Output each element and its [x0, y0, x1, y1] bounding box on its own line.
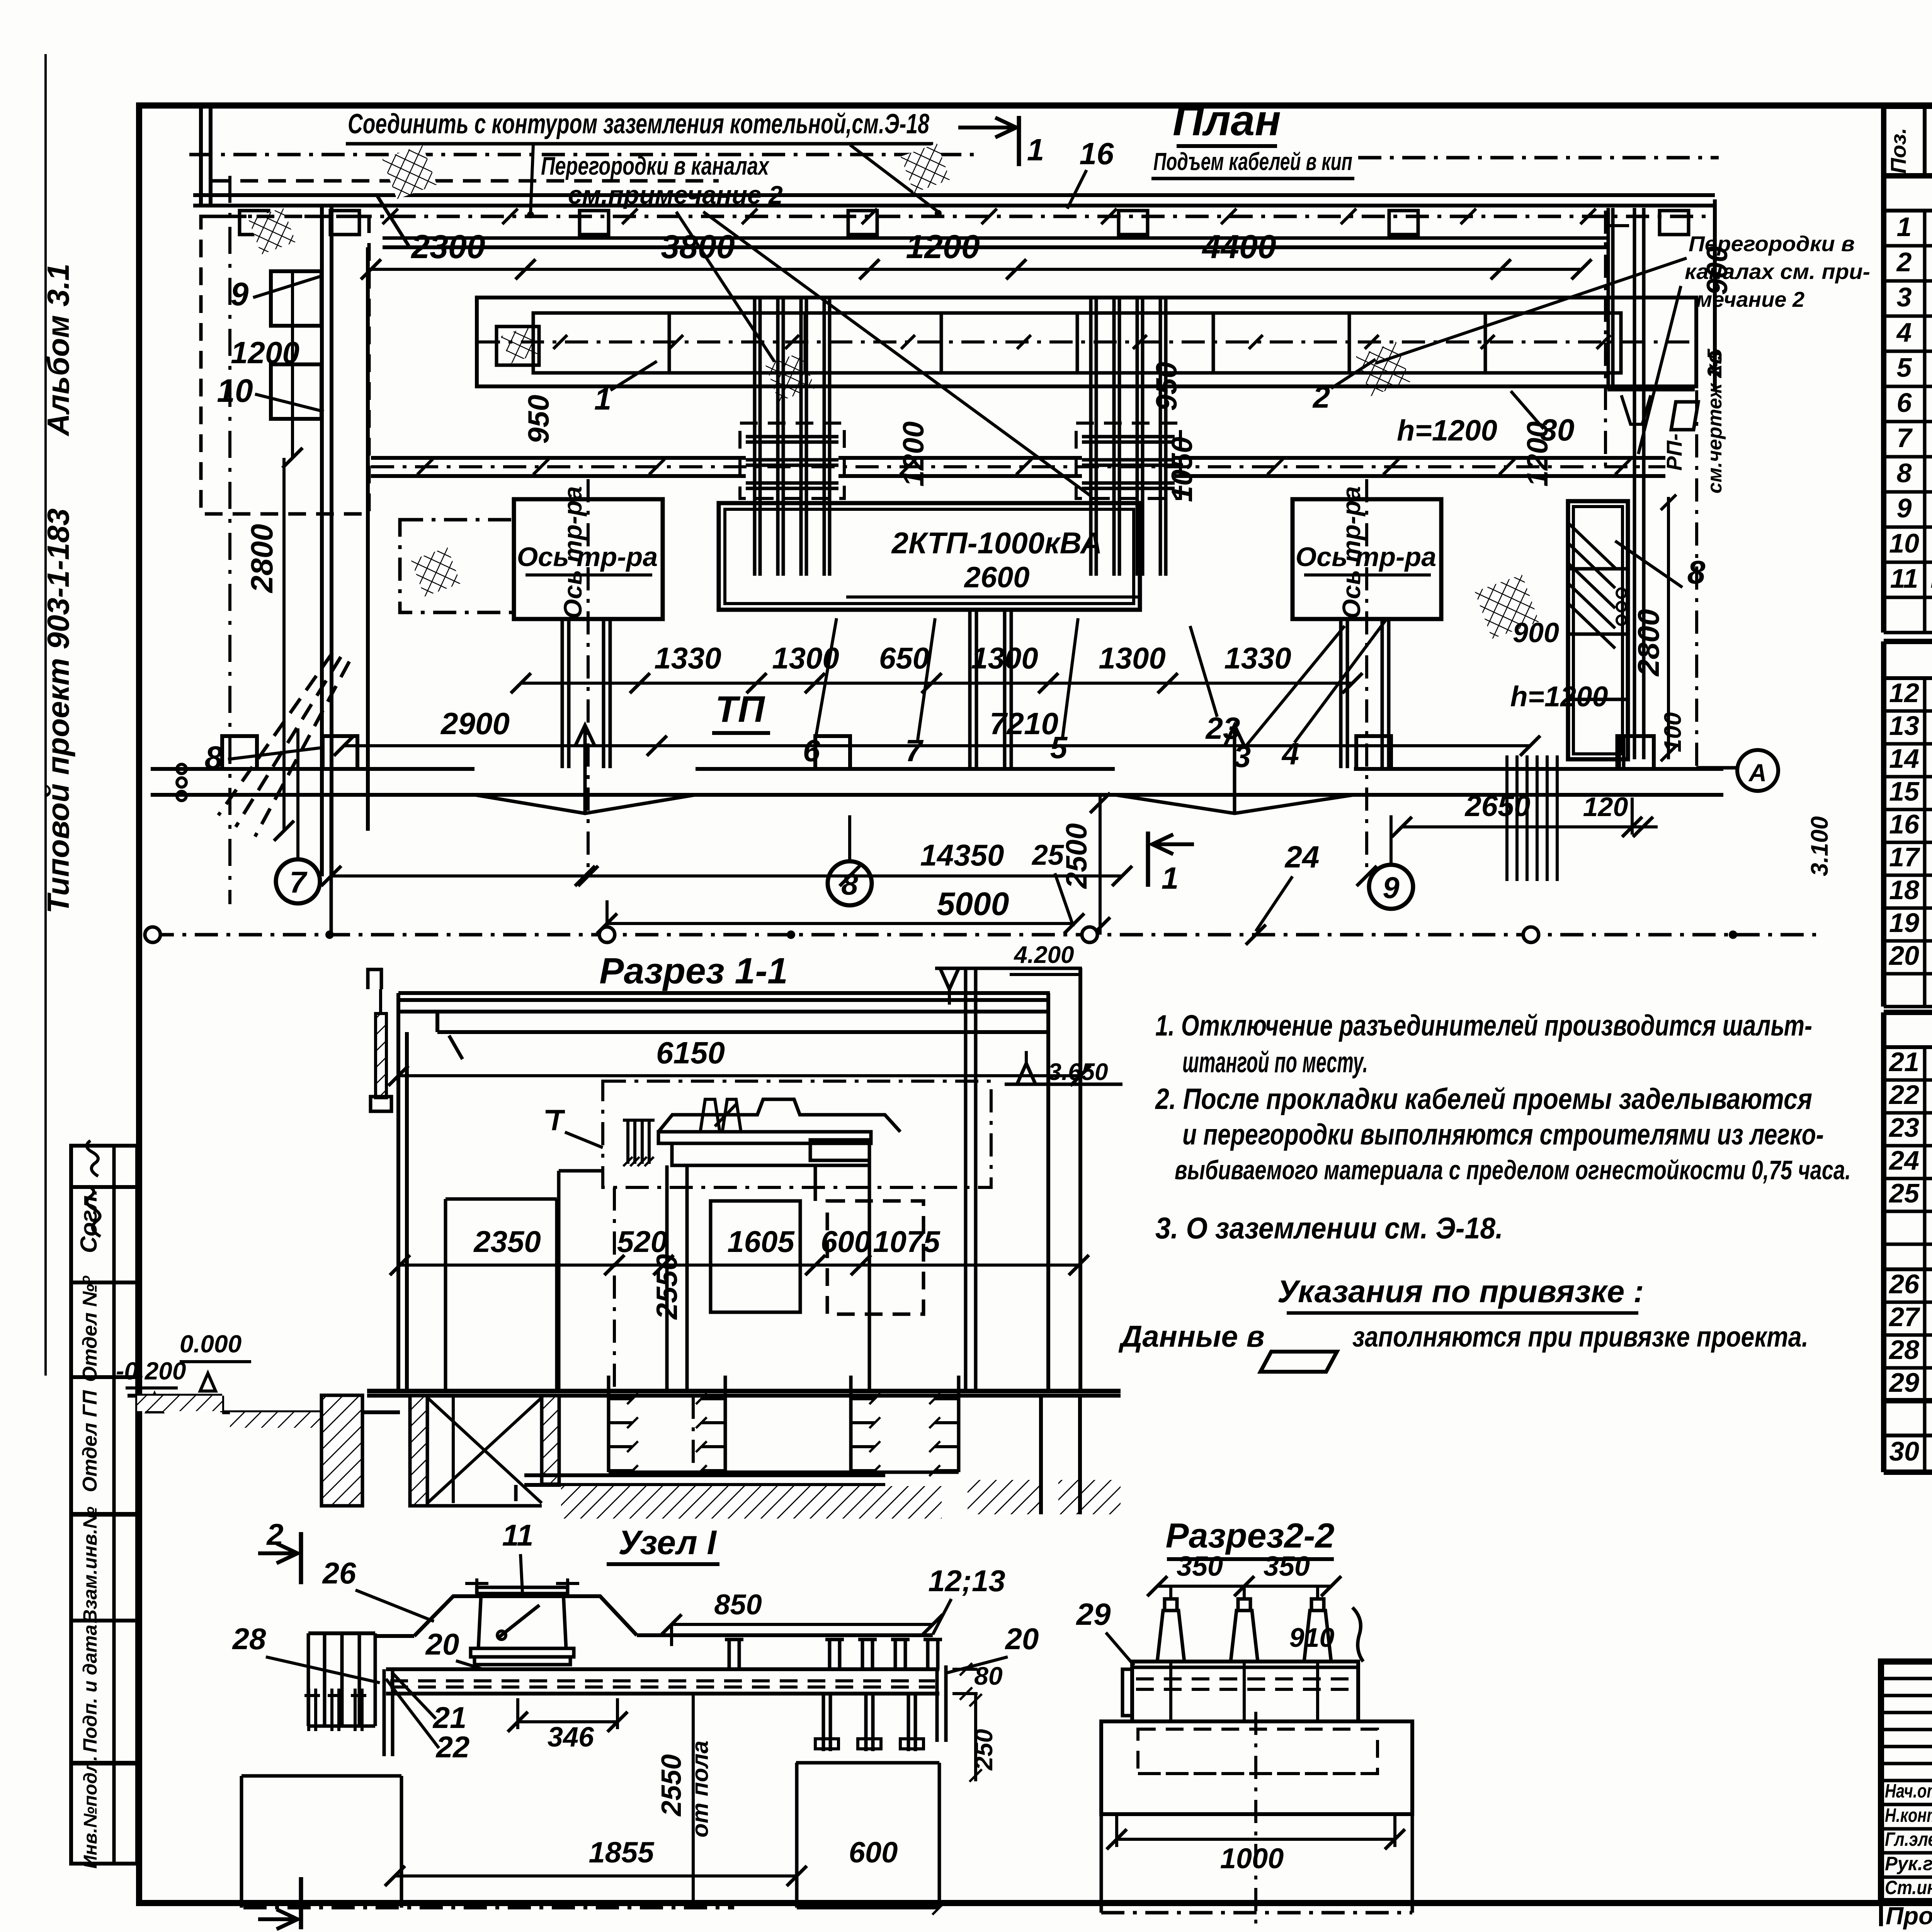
svg-text:29: 29: [1888, 1367, 1919, 1398]
svg-text:6150: 6150: [656, 1036, 725, 1070]
svg-text:0.000: 0.000: [180, 1330, 241, 1358]
section roof slab: [398, 991, 1050, 995]
svg-text:21: 21: [432, 1701, 467, 1735]
KIP riser verticals bottom right: [1505, 755, 1509, 881]
grounding trapezoid detail top-left: [377, 195, 456, 247]
svg-text:910: 910: [1289, 1622, 1335, 1653]
top wall column stubs: [240, 211, 269, 235]
left dashed room outline: [201, 216, 369, 514]
svg-text:10: 10: [1889, 528, 1919, 558]
right partition verticals: [1607, 208, 1610, 389]
bottom wall: [151, 767, 474, 771]
uzel I right bolts row: [728, 1639, 731, 1669]
svg-text:20: 20: [425, 1627, 459, 1661]
svg-text:Типовой проект 903-1-183: Типовой проект 903-1-183: [41, 509, 75, 913]
riser cluster B: [1089, 298, 1093, 576]
top wall axis with x-marks: [216, 215, 1715, 218]
dim 1000: [1117, 1838, 1395, 1841]
svg-text:7: 7: [289, 865, 308, 899]
uzel I hump profile: [375, 1634, 414, 1638]
section 2-2 body: [1132, 1662, 1358, 1721]
svg-text:План: План: [1173, 96, 1281, 145]
bottom wall piers: [222, 736, 257, 769]
svg-text:4.200: 4.200: [1013, 942, 1074, 968]
basement floor slabs: [524, 1473, 885, 1477]
svg-text:11: 11: [1890, 563, 1918, 594]
svg-text:2300: 2300: [410, 228, 485, 265]
dim row 1330-1300-650: [521, 682, 1352, 685]
svg-text:Инв.№подл.: Инв.№подл.: [80, 1756, 101, 1869]
uzel I baseline dashdot: [243, 1906, 734, 1910]
svg-text:выбиваемого материала с предел: выбиваемого материала с пределом огнесто…: [1175, 1155, 1851, 1185]
svg-text:22: 22: [435, 1730, 470, 1764]
svg-text:14350: 14350: [920, 838, 1004, 872]
svg-text:Подп. и дата: Подп. и дата: [79, 1624, 101, 1752]
svg-text:1330: 1330: [654, 641, 721, 675]
svg-text:3.100: 3.100: [1806, 816, 1833, 876]
svg-text:600: 600: [849, 1836, 898, 1869]
svg-text:Альбом 3.1: Альбом 3.1: [41, 264, 75, 437]
svg-text:28: 28: [1888, 1335, 1919, 1365]
uzel I channel right end: [935, 1669, 939, 1742]
section mark 2 bottom: [299, 1877, 303, 1929]
section roof beam band: [398, 1010, 1048, 1014]
svg-text:и перегородки выполняются стр: и перегородки выполняются строителями из…: [1182, 1118, 1824, 1151]
svg-text:Согл.: Согл.: [76, 1189, 102, 1253]
svg-text:Узел I: Узел I: [618, 1523, 717, 1561]
svg-text:1330: 1330: [1224, 641, 1291, 675]
svg-text:20: 20: [1888, 940, 1919, 971]
svg-text:Перегородки в: Перегородки в: [1689, 231, 1855, 256]
right leg: [1616, 734, 1619, 768]
title block outline: [1881, 1662, 1932, 1901]
section 2-2 foundation: [1101, 1721, 1412, 1814]
KIP funnel: [1621, 395, 1651, 424]
svg-text:11: 11: [502, 1518, 534, 1552]
frame-to-wall verticals top left: [199, 108, 203, 206]
parts table: block Electrooborudovanie: [1884, 173, 1932, 178]
dim 14350: [331, 874, 1122, 878]
svg-text:1: 1: [1027, 133, 1044, 167]
right axis dash-dot vertical: [1604, 211, 1607, 475]
riser cluster A: [753, 298, 757, 576]
svg-text:20: 20: [1005, 1622, 1039, 1656]
transformer box 2 legs: [1339, 619, 1343, 768]
svg-text:от пола: от пола: [687, 1741, 713, 1838]
top wall lines: [193, 193, 1715, 197]
svg-text:h=1200: h=1200: [1510, 680, 1608, 713]
svg-text:14: 14: [1889, 743, 1919, 774]
svg-text:4400: 4400: [1201, 228, 1276, 265]
section mark 1 top: [1017, 116, 1021, 166]
svg-text:19: 19: [1889, 908, 1919, 938]
svg-text:1: 1: [1162, 861, 1179, 895]
uzel I bottom dims: [395, 1874, 797, 1878]
svg-text:25: 25: [1031, 839, 1065, 871]
transformer top profile: [658, 1099, 900, 1132]
svg-text:26: 26: [322, 1556, 356, 1590]
stamp column signatures: [87, 1141, 98, 1176]
svg-text:21: 21: [1888, 1047, 1919, 1077]
transformer base and body: [658, 1132, 871, 1143]
svg-text:2800: 2800: [1631, 609, 1665, 677]
svg-text:2500: 2500: [1060, 823, 1093, 889]
svg-text:Ось тр-ра: Ось тр-ра: [558, 486, 587, 619]
svg-text:24: 24: [1284, 840, 1320, 874]
basement left exterior wall hatched: [321, 1395, 362, 1506]
svg-text:18: 18: [1889, 875, 1919, 905]
svg-text:3. О заземлении см. Э-18.: 3. О заземлении см. Э-18.: [1155, 1211, 1503, 1245]
svg-text:9: 9: [1897, 493, 1912, 523]
dim 5000: [607, 922, 1074, 925]
svg-text:2КТП-1000кВА: 2КТП-1000кВА: [891, 526, 1102, 560]
dim 2650 120: [1402, 825, 1632, 828]
svg-text:1605: 1605: [727, 1225, 795, 1259]
svg-text:600: 600: [821, 1225, 871, 1259]
svg-text:2. После прокладки кабелей: 2. После прокладки кабелей проемы заделы…: [1155, 1083, 1812, 1116]
uzel I insulator bucket: [477, 1587, 568, 1594]
svg-text:1: 1: [1897, 212, 1912, 242]
svg-text:Взам.инв.№: Взам.инв.№: [79, 1507, 101, 1623]
svg-text:5: 5: [1897, 352, 1912, 383]
svg-text:12;13: 12;13: [928, 1564, 1005, 1598]
svg-text:24: 24: [1888, 1145, 1919, 1175]
top dimension row: [371, 268, 1582, 271]
svg-text:2: 2: [266, 1517, 283, 1551]
dashed sub box left of box1: [400, 520, 514, 612]
svg-text:650: 650: [879, 641, 929, 675]
svg-text:2800: 2800: [245, 524, 279, 594]
basement right wall: [1039, 1396, 1043, 1514]
svg-text:7210: 7210: [990, 706, 1058, 741]
svg-text:1075: 1075: [873, 1225, 940, 1259]
svg-text:h=1200: h=1200: [1397, 414, 1497, 447]
hatch patches: [383, 145, 437, 199]
section interior rooms: [446, 1197, 557, 1201]
left column axis line: [228, 176, 231, 904]
svg-text:2550: 2550: [651, 1254, 684, 1320]
svg-text:Отдел ГП: Отдел ГП: [79, 1389, 101, 1492]
dashed outline top-left: [213, 179, 719, 183]
basement bottom ground hatch: [561, 1486, 942, 1519]
right foundation block: [795, 1763, 799, 1908]
transformer mounting legs: [701, 1099, 719, 1130]
svg-text:Гл.элек.: Гл.элек.: [1885, 1828, 1932, 1850]
left vertical dim 1200: [291, 269, 294, 458]
svg-text:9: 9: [1383, 871, 1400, 905]
svg-text:2: 2: [1312, 380, 1330, 414]
dim 346: [518, 1720, 617, 1723]
svg-text:2550: 2550: [656, 1754, 687, 1817]
left wall verticals: [320, 206, 324, 876]
uzel I bucket handle: [498, 1605, 539, 1638]
svg-text:2900: 2900: [440, 706, 510, 741]
dim row 2900 7210: [344, 744, 1530, 747]
uzel I left stack verticals: [307, 1633, 310, 1726]
svg-text:1. Отключение разъединителей: 1. Отключение разъединителей производитс…: [1155, 1009, 1812, 1042]
grounding hook right: [1352, 1607, 1363, 1662]
svg-text:80: 80: [974, 1662, 1003, 1690]
three insulators: [1157, 1611, 1184, 1662]
page edge line left: [44, 54, 47, 1376]
section mark 1 bottom: [1146, 832, 1150, 887]
elevation 3.650: [1017, 1063, 1036, 1084]
svg-text:520: 520: [617, 1225, 667, 1259]
tray axis dashdot: [477, 340, 1696, 344]
label A circle: [1696, 766, 1737, 770]
axis circles 7 8 9: [276, 859, 320, 903]
svg-text:6: 6: [803, 733, 820, 768]
svg-text:7: 7: [905, 733, 924, 768]
svg-text:6: 6: [1897, 388, 1912, 418]
svg-text:950: 950: [1150, 362, 1183, 411]
svg-text:5: 5: [1050, 730, 1068, 765]
svg-text:Соединить с контуром заземлени: Соединить с контуром заземления котельно…: [348, 109, 929, 139]
section left wall: [396, 1012, 400, 1391]
exterior ground line with hatch: [128, 1394, 222, 1398]
svg-text:1300: 1300: [971, 641, 1038, 675]
left stamp column boxes: [71, 1146, 137, 1864]
KTP outline: [719, 503, 1140, 610]
svg-text:Ось тр-ра: Ось тр-ра: [1337, 486, 1366, 619]
right RU cabinet: [1568, 501, 1628, 759]
svg-text:850: 850: [714, 1588, 762, 1621]
svg-text:8: 8: [1897, 458, 1912, 488]
svg-text:13: 13: [1889, 711, 1919, 741]
svg-text:Разрез2-2: Разрез2-2: [1165, 1517, 1334, 1555]
gap cell then rows 26-29: [1884, 1267, 1932, 1271]
svg-text:5000: 5000: [937, 886, 1009, 922]
transformer box 1 legs: [561, 619, 564, 768]
right note leaders: [1376, 258, 1687, 363]
svg-text:Подъем кабелей в кип: Подъем кабелей в кип: [1153, 148, 1352, 175]
basement cable racks: [607, 1376, 611, 1472]
svg-text:заполняются при привязке проек: заполняются при привязке проекта.: [1352, 1321, 1808, 1353]
uzel I left stack bolts below: [307, 1689, 310, 1731]
dim 850: [672, 1623, 933, 1626]
section mark 2 top: [299, 1532, 303, 1584]
svg-text:мечание 2: мечание 2: [1696, 287, 1804, 311]
svg-text:3.650: 3.650: [1048, 1059, 1108, 1085]
svg-text:350: 350: [1264, 1551, 1310, 1582]
svg-text:4: 4: [1896, 317, 1912, 347]
transformer radiator fins: [626, 1120, 629, 1164]
cable tray inner segmented: [533, 313, 1621, 373]
svg-text:Отдел №º: Отдел №º: [79, 1275, 101, 1382]
svg-text:900: 900: [1513, 617, 1559, 648]
svg-text:7: 7: [1897, 423, 1913, 453]
svg-text:29: 29: [1076, 1597, 1111, 1631]
section 2-2 below: [1100, 1814, 1103, 1913]
svg-text:2: 2: [1896, 247, 1912, 277]
svg-text:16: 16: [1889, 809, 1920, 839]
bottom axis dash-dot with circles: [151, 933, 1816, 937]
parts table: header: [1884, 106, 1932, 176]
svg-text:28: 28: [232, 1622, 266, 1656]
svg-text:3800: 3800: [661, 228, 735, 265]
section right wall: [1046, 993, 1050, 1391]
svg-text:штангой по месту.: штангой по месту.: [1182, 1046, 1368, 1079]
svg-text:ТП: ТП: [715, 689, 765, 730]
section shaft verticals right: [964, 968, 968, 1391]
svg-text:346: 346: [548, 1722, 594, 1753]
svg-text:22: 22: [1888, 1080, 1919, 1110]
left foundation block: [241, 1774, 401, 1778]
leader wires from grounding note: [531, 145, 533, 213]
svg-text:120: 120: [1583, 792, 1628, 822]
svg-text:27: 27: [1888, 1302, 1920, 1332]
svg-text:Разрез 1-1: Разрез 1-1: [599, 951, 788, 992]
svg-text:1200: 1200: [906, 228, 980, 265]
svg-text:950: 950: [522, 395, 555, 444]
svg-text:12: 12: [1889, 678, 1919, 708]
svg-text:9: 9: [231, 276, 249, 312]
plan right wall corner: [1713, 199, 1717, 390]
svg-text:РП-: РП-: [1662, 434, 1686, 471]
svg-text:2650: 2650: [1464, 790, 1530, 823]
svg-text:2600: 2600: [963, 561, 1029, 594]
svg-text:100: 100: [1660, 712, 1686, 752]
svg-text:-0.200: -0.200: [116, 1357, 186, 1385]
floor line 0.000: [367, 1389, 1121, 1393]
tray left end box: [497, 327, 539, 365]
svg-text:Н.контр: Н.контр: [1885, 1804, 1932, 1826]
svg-text:26: 26: [1888, 1269, 1920, 1299]
svg-text:1000: 1000: [1220, 1842, 1284, 1874]
svg-text:РВР-Ш-10;2000А: РВР-Ш-10;2000А: [1930, 566, 1932, 593]
svg-text:8: 8: [1687, 554, 1706, 590]
parts table: block Prokat chernykh metallov: [1884, 1010, 1932, 1015]
axis dash-dot top: [189, 153, 978, 156]
transformer box 1: [514, 499, 663, 619]
svg-text:Рук.гр.: Рук.гр.: [1885, 1853, 1932, 1874]
uzel I channel left leg: [383, 1669, 386, 1756]
svg-text:Указания по привязке :: Указания по привязке :: [1277, 1274, 1644, 1309]
svg-text:2: 2: [266, 1929, 283, 1932]
basement axis dashdot: [692, 1396, 695, 1475]
svg-text:1050: 1050: [1166, 437, 1199, 502]
svg-text:25: 25: [1888, 1178, 1920, 1208]
svg-text:Данные в: Данные в: [1118, 1319, 1265, 1353]
svg-text:А: А: [1748, 759, 1767, 787]
svg-text:10: 10: [217, 372, 253, 409]
uzel I right legs below channel: [822, 1694, 825, 1751]
peregorodki leaders: [676, 212, 789, 384]
dims 350 350: [1157, 1585, 1331, 1588]
svg-text:30: 30: [1540, 413, 1575, 447]
svg-text:23: 23: [1888, 1112, 1919, 1143]
svg-text:см.чертеж 2-5: см.чертеж 2-5: [1704, 349, 1726, 494]
transformer box 2: [1293, 499, 1441, 619]
svg-text:2350: 2350: [473, 1225, 541, 1259]
svg-text:17: 17: [1889, 842, 1920, 872]
svg-text:30: 30: [1889, 1436, 1919, 1466]
uzel I main channel band: [386, 1667, 939, 1671]
svg-text:каналах см. при-: каналах см. при-: [1685, 259, 1870, 284]
section 2-2 channel band: [1130, 1660, 1360, 1663]
left wall boxes: [271, 271, 321, 326]
svg-text:Пров. Суриков: Пров. Суриков: [1886, 1902, 1932, 1930]
svg-text:16: 16: [1080, 136, 1114, 171]
parts table: block Stroitelnye materialy: [1884, 1398, 1932, 1403]
svg-text:15: 15: [1889, 776, 1920, 806]
basement hatched piers and door X: [410, 1396, 427, 1506]
svg-text:1855: 1855: [588, 1836, 655, 1869]
section interior verticals: [613, 1187, 616, 1391]
svg-text:3: 3: [1897, 282, 1912, 312]
svg-text:Ст.инж: Ст.инж: [1885, 1877, 1932, 1898]
transformer dash-dot contour: [603, 1081, 991, 1187]
svg-text:1: 1: [594, 382, 612, 416]
svg-text:Поз.: Поз.: [1886, 128, 1910, 174]
left door swing dashed diagonals: [218, 653, 332, 815]
svg-text:250: 250: [970, 1729, 998, 1771]
elevation 4.200: [935, 967, 1082, 970]
bottom door trapezoids with arrows: [474, 795, 696, 813]
svg-text:1300: 1300: [1099, 641, 1166, 675]
svg-text:Нач.отд: Нач.отд: [1885, 1780, 1932, 1802]
middle wall with x-marks: [371, 456, 746, 460]
cable tray outer rect: [477, 298, 1696, 386]
svg-text:8: 8: [841, 867, 858, 901]
KTP legs: [968, 610, 972, 768]
parts table: block GEM products: [1884, 639, 1932, 644]
svg-text:350: 350: [1177, 1551, 1223, 1582]
